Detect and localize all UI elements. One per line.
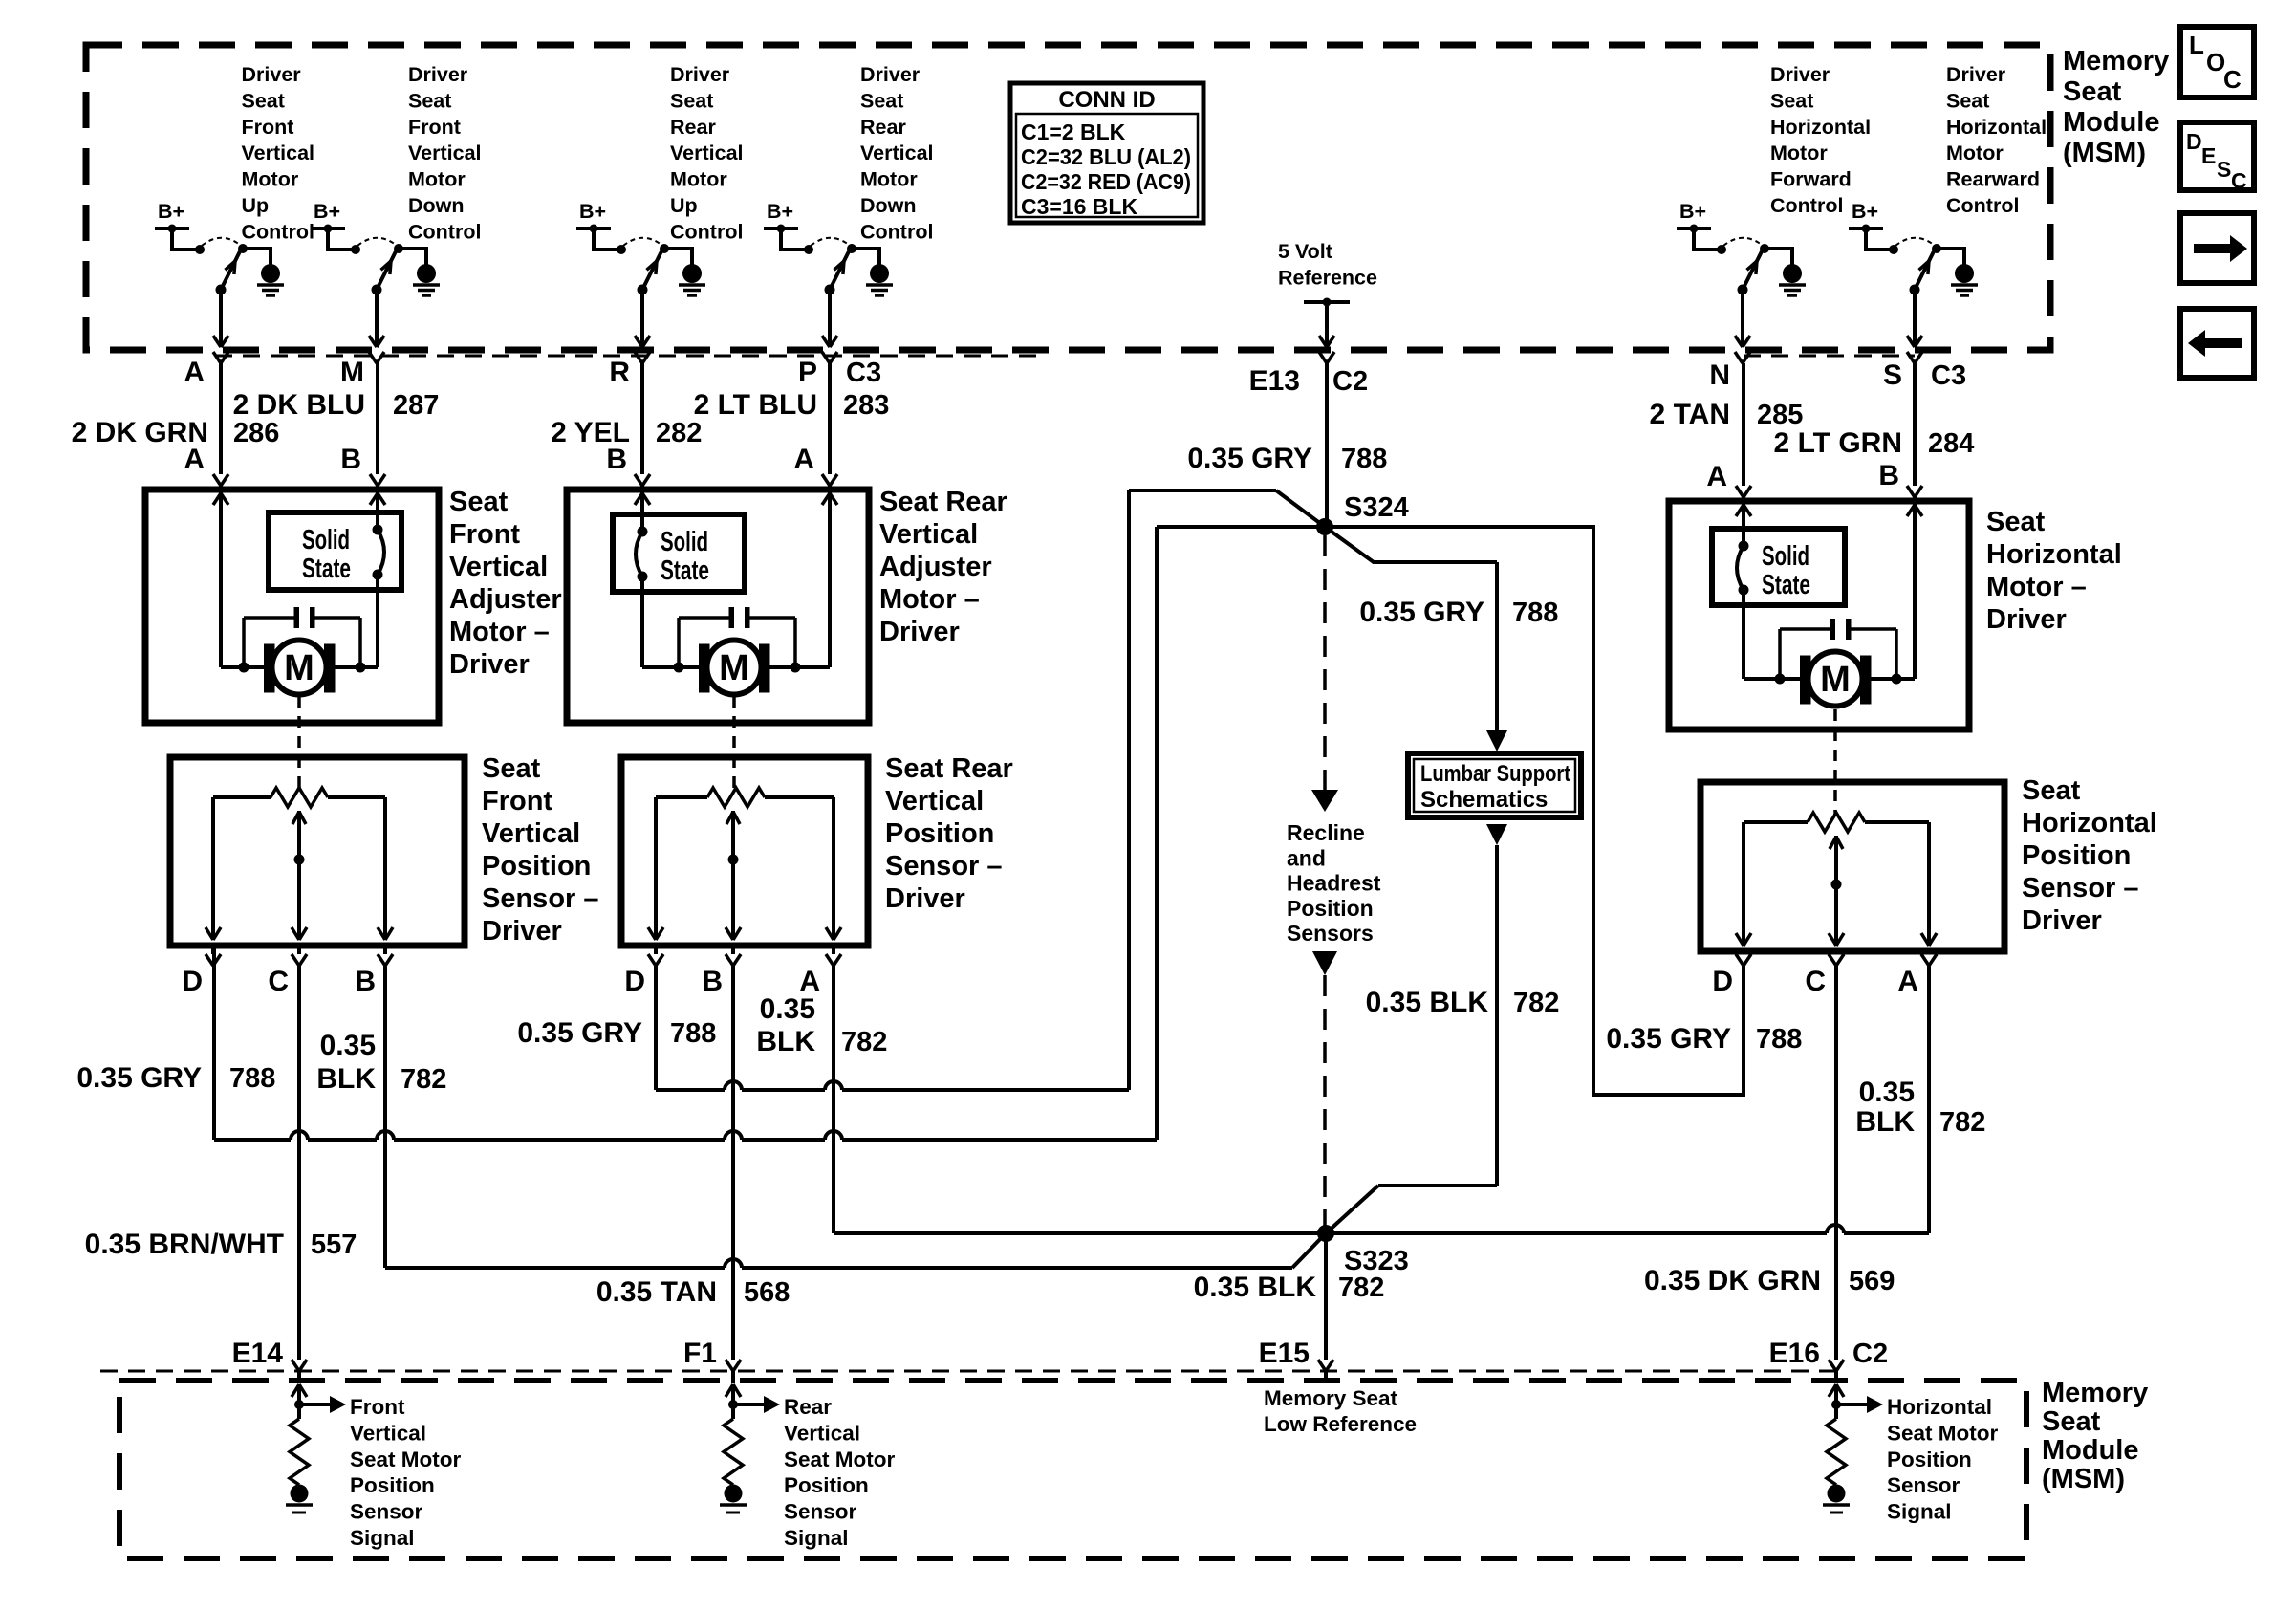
svg-text:282: 282 bbox=[656, 418, 702, 448]
pin label A (motor box 1 left) bbox=[184, 444, 205, 475]
svg-text:Driver: Driver bbox=[1946, 63, 2006, 86]
svg-text:M: M bbox=[1820, 660, 1851, 700]
svg-text:Vertical: Vertical bbox=[350, 1421, 426, 1445]
wire 0.35 BLK 782 from Lumbar Support down to S323 bbox=[1326, 824, 1507, 1233]
svg-text:569: 569 bbox=[1849, 1266, 1895, 1296]
svg-text:State: State bbox=[302, 554, 351, 584]
svg-text:Motor: Motor bbox=[1946, 142, 2004, 164]
svg-text:BLK: BLK bbox=[1855, 1106, 1915, 1138]
sensor2 pin letters D B A bbox=[624, 966, 820, 997]
svg-text:Seat: Seat bbox=[1770, 89, 1813, 112]
svg-text:Module: Module bbox=[2063, 107, 2160, 138]
sensor3 pin D fork bbox=[1736, 951, 1751, 966]
dashed wire 0.35 GRY 788 to Recline and Headrest Position Sensors bbox=[1311, 535, 1338, 812]
svg-text:C2: C2 bbox=[1852, 1339, 1888, 1369]
svg-text:Module: Module bbox=[2042, 1435, 2139, 1466]
svg-text:M: M bbox=[340, 357, 364, 388]
svg-text:Driver: Driver bbox=[1770, 63, 1830, 86]
svg-text:Front: Front bbox=[242, 116, 294, 139]
svg-text:Up: Up bbox=[670, 194, 698, 217]
svg-text:B: B bbox=[1878, 460, 1899, 491]
svg-text:Seat Motor: Seat Motor bbox=[350, 1448, 462, 1471]
svg-text:0.35 GRY: 0.35 GRY bbox=[76, 1062, 202, 1094]
svg-text:Rear: Rear bbox=[670, 116, 716, 139]
connector fork pin R (rear vertical up) bbox=[635, 352, 650, 363]
svg-text:788: 788 bbox=[670, 1018, 716, 1049]
svg-text:B+: B+ bbox=[1852, 200, 1878, 223]
sensor1 pin C fork bbox=[292, 946, 307, 966]
mechanical link motor 1 to sensor 1 (dashed) bbox=[297, 696, 301, 788]
wire label 0.35 BLK 782 (E15 low reference) bbox=[1194, 1272, 1385, 1303]
svg-text:0.35 BRN/WHT: 0.35 BRN/WHT bbox=[85, 1229, 284, 1260]
svg-text:Position: Position bbox=[1287, 896, 1374, 921]
svg-text:A: A bbox=[1706, 461, 1727, 492]
svg-text:B+: B+ bbox=[767, 200, 793, 223]
svg-text:S: S bbox=[1883, 359, 1902, 391]
svg-text:S324: S324 bbox=[1344, 492, 1409, 523]
BLK 782 S323 bus horizontal (sensor2 A to sensor3 A) bbox=[834, 966, 1929, 1233]
wire 2 DK GRN 286 segment (A to motor box 1) bbox=[213, 363, 228, 490]
wire 0.35 BRN/WHT 557 (sensor1 C signal to E14) bbox=[297, 966, 301, 1360]
svg-text:Position: Position bbox=[350, 1473, 435, 1497]
svg-text:M: M bbox=[719, 648, 749, 688]
svg-text:Position: Position bbox=[1887, 1448, 1972, 1471]
svg-text:Seat: Seat bbox=[2042, 1406, 2101, 1437]
svg-text:Driver: Driver bbox=[860, 63, 921, 86]
wire label 0.35 BRN/WHT 557 bbox=[85, 1229, 357, 1260]
wire 0.35 DK GRN 569 (sensor3 C signal to E16) bbox=[1834, 966, 1838, 1360]
svg-text:E: E bbox=[2201, 143, 2216, 168]
svg-text:Motor: Motor bbox=[670, 168, 727, 191]
LOC icon box bbox=[2180, 27, 2254, 98]
svg-text:D: D bbox=[624, 966, 645, 997]
pin label E14 bbox=[232, 1338, 284, 1369]
svg-text:Down: Down bbox=[860, 194, 917, 217]
sensor3 pin C fork bbox=[1829, 951, 1844, 966]
svg-text:BLK: BLK bbox=[756, 1026, 815, 1057]
pin label R bbox=[609, 357, 630, 388]
svg-text:Motor: Motor bbox=[860, 168, 918, 191]
svg-text:Seat Motor: Seat Motor bbox=[784, 1448, 896, 1471]
svg-text:B: B bbox=[606, 444, 627, 475]
Seat Rear Vertical Position Sensor - Driver (potentiometer) bbox=[621, 753, 1013, 946]
connector fork pin S (horizontal rearward) bbox=[1907, 352, 1922, 363]
svg-text:Front: Front bbox=[408, 116, 461, 139]
wire 2 LT BLU 283 segment (P to motor box 2) bbox=[822, 363, 837, 490]
pin label S bbox=[1883, 359, 1902, 391]
svg-text:C: C bbox=[2231, 168, 2247, 193]
DESC icon box bbox=[2180, 122, 2254, 193]
switch: Driver Seat Horizontal Motor Forward Control (inside MSM) bbox=[1677, 63, 1871, 347]
Memory Seat Module (MSM) bottom dashed boundary box bbox=[119, 1381, 2026, 1558]
connector fork pin N (horizontal forward) bbox=[1735, 352, 1750, 363]
svg-text:287: 287 bbox=[393, 390, 439, 421]
svg-text:Down: Down bbox=[408, 194, 465, 217]
svg-text:C2: C2 bbox=[1332, 366, 1368, 397]
svg-text:782: 782 bbox=[1939, 1107, 1985, 1138]
wire label 0.35 GRY 788 (sensor3 D) bbox=[1606, 1023, 1802, 1055]
svg-text:Sensor –: Sensor – bbox=[885, 851, 1003, 882]
svg-text:782: 782 bbox=[1338, 1273, 1384, 1303]
svg-text:788: 788 bbox=[1341, 444, 1387, 474]
svg-text:Driver: Driver bbox=[482, 916, 562, 947]
svg-text:Seat: Seat bbox=[482, 753, 541, 784]
svg-text:Vertical: Vertical bbox=[242, 142, 315, 164]
svg-text:A: A bbox=[184, 444, 205, 475]
svg-text:E15: E15 bbox=[1259, 1338, 1310, 1369]
svg-text:Seat: Seat bbox=[449, 487, 509, 517]
connector fork pin P (rear vertical down) bbox=[822, 352, 837, 363]
wire label 0.35 BLK 782 (lumbar return) bbox=[1366, 987, 1560, 1018]
pin label P bbox=[798, 357, 817, 388]
Memory Seat Module (MSM) top dashed boundary box bbox=[86, 45, 2050, 350]
wire label 2 TAN 285 (wire N) bbox=[1650, 399, 1804, 430]
svg-text:Vertical: Vertical bbox=[482, 818, 580, 849]
svg-text:Up: Up bbox=[242, 194, 270, 217]
Front Vertical Seat Motor Position Sensor Signal (resistor to ground) bbox=[286, 1384, 462, 1550]
svg-text:R: R bbox=[609, 357, 630, 388]
pin label A bbox=[184, 357, 205, 388]
svg-text:Motor: Motor bbox=[408, 168, 466, 191]
svg-text:2 TAN: 2 TAN bbox=[1650, 399, 1730, 430]
svg-text:Vertical: Vertical bbox=[449, 552, 548, 582]
svg-text:A: A bbox=[184, 357, 205, 388]
thin dashed connector line (right group C3) bbox=[1744, 355, 1915, 358]
Seat Rear Vertical Adjuster Motor - Driver (U2) bbox=[567, 487, 1007, 723]
svg-text:C2=32 BLU (AL2): C2=32 BLU (AL2) bbox=[1021, 144, 1191, 169]
switch: Driver Seat Front Vertical Motor Down Control (inside MSM) bbox=[311, 63, 482, 347]
Seat Front Vertical Adjuster Motor - Driver (U1) bbox=[145, 487, 562, 723]
pin label E15 bbox=[1259, 1338, 1310, 1369]
pin label A (motor box 2 right) bbox=[793, 444, 814, 475]
svg-text:D: D bbox=[2186, 129, 2202, 154]
svg-text:Low Reference: Low Reference bbox=[1264, 1412, 1417, 1436]
svg-text:C: C bbox=[2223, 65, 2242, 94]
Recline and Headrest Position Sensors reference text bbox=[1287, 820, 1381, 946]
svg-text:C2=32 RED (AC9): C2=32 RED (AC9) bbox=[1021, 169, 1191, 194]
svg-text:Seat Rear: Seat Rear bbox=[879, 487, 1007, 517]
Horizontal Seat Motor Position Sensor Signal (resistor to ground) bbox=[1823, 1384, 1999, 1524]
svg-text:Control: Control bbox=[860, 220, 933, 243]
wire 2 DK BLU 287 segment (M to motor box 1) bbox=[370, 363, 385, 490]
svg-text:2 LT GRN: 2 LT GRN bbox=[1774, 427, 1902, 459]
pin label E16 bbox=[1769, 1338, 1820, 1369]
svg-text:Vertical: Vertical bbox=[879, 519, 978, 550]
splice S323 node bbox=[1317, 1225, 1409, 1276]
svg-text:Seat Motor: Seat Motor bbox=[1887, 1421, 1999, 1445]
svg-text:788: 788 bbox=[1756, 1024, 1802, 1055]
svg-text:State: State bbox=[1762, 570, 1810, 600]
sensor2 pin B fork bbox=[726, 946, 741, 966]
svg-text:Horizontal: Horizontal bbox=[1986, 539, 2122, 570]
mechanical link motor 2 to sensor 2 (dashed) bbox=[732, 696, 736, 788]
svg-text:Rear: Rear bbox=[784, 1395, 832, 1419]
svg-text:A: A bbox=[1897, 966, 1918, 997]
svg-text:Schematics: Schematics bbox=[1420, 787, 1548, 813]
svg-text:C1=2 BLK: C1=2 BLK bbox=[1021, 120, 1126, 144]
svg-text:E14: E14 bbox=[232, 1338, 284, 1369]
svg-text:Sensor: Sensor bbox=[784, 1500, 857, 1524]
svg-text:Forward: Forward bbox=[1770, 168, 1852, 191]
connector fork pin A (front vertical up) bbox=[213, 352, 228, 363]
wire 0.35 GRY 788 segment (E13 down to S324) bbox=[1325, 363, 1329, 527]
Seat Horizontal Position Sensor - Driver (potentiometer) bbox=[1700, 775, 2157, 951]
svg-text:788: 788 bbox=[1512, 598, 1558, 628]
svg-text:Vertical: Vertical bbox=[408, 142, 482, 164]
svg-text:Adjuster: Adjuster bbox=[449, 584, 562, 615]
wire label 2 LT GRN 284 (wire S) bbox=[1774, 427, 1975, 459]
svg-text:0.35: 0.35 bbox=[1859, 1077, 1915, 1108]
Rear Vertical Seat Motor Position Sensor Signal (resistor to ground) bbox=[720, 1384, 896, 1550]
svg-text:Vertical: Vertical bbox=[885, 786, 984, 816]
svg-text:782: 782 bbox=[1513, 988, 1559, 1018]
svg-text:C: C bbox=[268, 966, 289, 997]
wire label 2 DK GRN 286 (wire A) bbox=[72, 417, 280, 448]
svg-text:Front: Front bbox=[350, 1395, 405, 1419]
connector fork E16 bbox=[1829, 1360, 1844, 1383]
svg-text:Solid: Solid bbox=[1762, 541, 1809, 572]
splice S324 node bbox=[1316, 492, 1409, 535]
svg-text:D: D bbox=[1712, 966, 1733, 997]
svg-text:F1: F1 bbox=[683, 1338, 717, 1369]
svg-text:(MSM): (MSM) bbox=[2063, 138, 2146, 168]
wire label 2 DK BLU 287 (wire M) bbox=[233, 389, 440, 421]
wire 0.35 BLK 782 bus2 (sensor1 B to S323) bbox=[385, 966, 1326, 1268]
svg-text:568: 568 bbox=[744, 1277, 790, 1308]
svg-text:0.35 BLK: 0.35 BLK bbox=[1194, 1272, 1317, 1303]
svg-text:0.35: 0.35 bbox=[760, 993, 815, 1025]
pin label C2 (E13) bbox=[1332, 366, 1368, 397]
backward arrow icon box bbox=[2180, 309, 2254, 378]
svg-text:Position: Position bbox=[784, 1473, 869, 1497]
svg-text:B: B bbox=[702, 966, 723, 997]
S324 right branch to sensor3 D bbox=[1325, 527, 1744, 1095]
wire label 0.35 TAN 568 bbox=[596, 1276, 791, 1308]
svg-text:Seat: Seat bbox=[670, 89, 713, 112]
svg-text:Horizontal: Horizontal bbox=[1946, 116, 2047, 139]
svg-text:Position: Position bbox=[885, 818, 994, 849]
svg-text:B+: B+ bbox=[579, 200, 606, 223]
svg-text:CONN ID: CONN ID bbox=[1058, 87, 1155, 113]
svg-text:5 Volt: 5 Volt bbox=[1278, 240, 1332, 263]
connector fork E14 bbox=[292, 1360, 307, 1383]
svg-text:0.35 DK GRN: 0.35 DK GRN bbox=[1644, 1265, 1821, 1296]
svg-text:Rear: Rear bbox=[860, 116, 906, 139]
dashed wire 0.35 BLK 782 from Recline/Headrest sensors to S323 bbox=[1312, 951, 1337, 1233]
svg-text:Front: Front bbox=[482, 786, 552, 816]
svg-text:0.35 BLK: 0.35 BLK bbox=[1366, 987, 1489, 1018]
switch: Driver Seat Horizontal Motor Rearward Control (inside MSM) bbox=[1849, 63, 2047, 347]
wire label 2 YEL 282 (wire R) bbox=[551, 417, 702, 448]
svg-text:Adjuster: Adjuster bbox=[879, 552, 992, 582]
svg-text:Driver: Driver bbox=[242, 63, 302, 86]
connector fork F1 bbox=[726, 1360, 741, 1383]
svg-text:L: L bbox=[2189, 31, 2204, 59]
svg-text:Vertical: Vertical bbox=[670, 142, 744, 164]
svg-text:Motor: Motor bbox=[242, 168, 299, 191]
svg-text:and: and bbox=[1287, 845, 1326, 870]
thin dashed connector line (bottom, C2) bbox=[100, 1370, 1837, 1373]
svg-text:Driver: Driver bbox=[449, 649, 530, 680]
svg-text:2 LT BLU: 2 LT BLU bbox=[694, 389, 817, 421]
svg-text:285: 285 bbox=[1757, 400, 1803, 430]
pin label N bbox=[1709, 359, 1730, 391]
svg-text:Sensor: Sensor bbox=[1887, 1473, 1960, 1497]
Memory Seat Low Reference text (E15) bbox=[1264, 1386, 1417, 1436]
svg-text:Control: Control bbox=[670, 220, 743, 243]
pin label C2 (E16) bbox=[1852, 1339, 1888, 1369]
svg-text:Recline: Recline bbox=[1287, 820, 1365, 845]
svg-text:Seat: Seat bbox=[2022, 775, 2081, 806]
svg-text:C3: C3 bbox=[1931, 360, 1966, 391]
svg-text:Driver: Driver bbox=[879, 617, 960, 647]
svg-text:Sensor –: Sensor – bbox=[2022, 873, 2139, 903]
svg-text:Motor –: Motor – bbox=[1986, 572, 2087, 602]
svg-text:(MSM): (MSM) bbox=[2042, 1464, 2125, 1494]
pin label B (motor box 1 right) bbox=[340, 444, 361, 475]
svg-text:0.35 GRY: 0.35 GRY bbox=[1359, 597, 1484, 628]
svg-text:State: State bbox=[661, 555, 709, 586]
svg-text:0.35 GRY: 0.35 GRY bbox=[517, 1017, 642, 1049]
switch: Driver Seat Front Vertical Motor Up Control (inside MSM) bbox=[155, 63, 314, 347]
pin label B (motor box 3 right) bbox=[1878, 460, 1899, 491]
svg-text:Memory: Memory bbox=[2063, 46, 2169, 76]
svg-text:2 DK BLU: 2 DK BLU bbox=[233, 389, 365, 421]
svg-text:Vertical: Vertical bbox=[860, 142, 934, 164]
svg-text:Horizontal: Horizontal bbox=[2022, 808, 2157, 838]
pin label M bbox=[340, 357, 364, 388]
svg-text:Driver: Driver bbox=[2022, 905, 2102, 936]
sensor2 pin A fork bbox=[826, 946, 841, 966]
wire 0.35 GRY 788 bus upper-left branch (to sensor2 D via riser x=1181) bbox=[656, 490, 1325, 1090]
svg-text:0.35: 0.35 bbox=[320, 1030, 376, 1061]
svg-text:B: B bbox=[355, 966, 376, 997]
svg-text:283: 283 bbox=[843, 390, 889, 421]
svg-text:0.35 GRY: 0.35 GRY bbox=[1187, 443, 1312, 474]
svg-text:Seat: Seat bbox=[860, 89, 903, 112]
pin label B (motor box 2 left) bbox=[606, 444, 627, 475]
svg-text:S: S bbox=[2217, 157, 2231, 182]
svg-text:Control: Control bbox=[408, 220, 481, 243]
svg-text:Position: Position bbox=[482, 851, 591, 882]
wire label 0.35 BLK 782 (sensor3 A) bbox=[1855, 1077, 1985, 1138]
svg-text:B+: B+ bbox=[314, 200, 340, 223]
Seat Front Vertical Position Sensor - Driver (potentiometer) bbox=[170, 753, 599, 947]
svg-text:A: A bbox=[793, 444, 814, 475]
GRY 788 bus1 horizontal (sensor1 D to S324 riser) bbox=[214, 946, 1157, 1140]
svg-text:286: 286 bbox=[233, 418, 279, 448]
svg-text:D: D bbox=[182, 966, 203, 997]
svg-text:284: 284 bbox=[1928, 428, 1974, 459]
svg-text:Seat: Seat bbox=[242, 89, 285, 112]
svg-text:Memory Seat: Memory Seat bbox=[1264, 1386, 1398, 1410]
5 Volt Reference terminal (node E13 source) bbox=[1278, 240, 1377, 347]
svg-text:Seat: Seat bbox=[408, 89, 451, 112]
svg-text:Control: Control bbox=[1770, 194, 1843, 217]
pin label A (motor box 3 left) bbox=[1706, 461, 1727, 492]
CONN ID table bbox=[1010, 83, 1203, 223]
wire label 0.35 GRY 788 (sensor2 D) bbox=[517, 1017, 716, 1049]
sensor3 pin A fork bbox=[1921, 951, 1937, 966]
S324 lower-right branch to Lumbar Support (0.35 GRY 788) bbox=[1325, 527, 1507, 751]
wire label 0.35 BLK 782 (sensor2 A) bbox=[756, 993, 887, 1057]
svg-text:Headrest: Headrest bbox=[1287, 871, 1381, 896]
Memory Seat Module (MSM) title bottom right bbox=[2042, 1378, 2148, 1494]
svg-text:Motor: Motor bbox=[1770, 142, 1828, 164]
svg-text:Memory: Memory bbox=[2042, 1378, 2148, 1408]
wire label 0.35 GRY 788 (E13 5V ref) bbox=[1187, 443, 1387, 474]
svg-text:Horizontal: Horizontal bbox=[1770, 116, 1871, 139]
svg-text:M: M bbox=[284, 648, 314, 688]
switch: Driver Seat Rear Vertical Motor Down Control (inside MSM) bbox=[764, 63, 934, 347]
svg-text:E16: E16 bbox=[1769, 1338, 1820, 1369]
sensor1 pin D fork bbox=[206, 946, 221, 966]
svg-text:Driver: Driver bbox=[408, 63, 468, 86]
svg-text:C3: C3 bbox=[846, 358, 881, 388]
connector fork pin M (front vertical down) bbox=[369, 352, 384, 363]
svg-text:0.35 GRY: 0.35 GRY bbox=[1606, 1023, 1731, 1055]
svg-text:Front: Front bbox=[449, 519, 520, 550]
svg-text:Seat: Seat bbox=[1946, 89, 1989, 112]
pin label C3 (horizontal group) bbox=[1931, 360, 1966, 391]
S324 left branch to GRY 788 bus1 (sensor1 D) bbox=[1157, 527, 1325, 1140]
svg-text:Lumbar Support: Lumbar Support bbox=[1420, 761, 1570, 787]
svg-text:BLK: BLK bbox=[316, 1063, 376, 1095]
svg-text:Signal: Signal bbox=[1887, 1500, 1952, 1524]
svg-text:Rearward: Rearward bbox=[1946, 168, 2040, 191]
svg-text:N: N bbox=[1709, 359, 1730, 391]
svg-text:B+: B+ bbox=[158, 200, 184, 223]
pin label F1 bbox=[683, 1338, 717, 1369]
wire label 0.35 BLK 782 (sensor1 B) bbox=[316, 1030, 446, 1095]
svg-text:Sensors: Sensors bbox=[1287, 921, 1374, 946]
svg-text:Horizontal: Horizontal bbox=[1887, 1395, 1992, 1419]
svg-text:Seat: Seat bbox=[1986, 507, 2046, 537]
svg-text:Control: Control bbox=[1946, 194, 2019, 217]
svg-text:Driver: Driver bbox=[885, 883, 965, 914]
pin label E13 bbox=[1249, 365, 1300, 397]
wire label 2 LT BLU 283 (wire P) bbox=[694, 389, 890, 421]
svg-text:782: 782 bbox=[401, 1064, 446, 1095]
svg-text:0.35 TAN: 0.35 TAN bbox=[596, 1276, 717, 1308]
sensor2 pin D fork bbox=[648, 946, 663, 966]
wire 2 LT GRN 284 segment (S to motor box 3) bbox=[1907, 363, 1922, 501]
wire 0.35 BLK 782 (S323 down to E15) bbox=[1324, 1233, 1328, 1360]
thin dashed connector line (left group C3/C2) bbox=[215, 355, 1044, 358]
sensor1 pin letters D C B bbox=[182, 966, 376, 997]
wire 2 TAN 285 segment (N to motor box 3) bbox=[1736, 363, 1751, 501]
Lumbar Support Schematics reference box bbox=[1408, 753, 1581, 817]
wire 0.35 BLK 782 (sensor2 A down to S323 bus) bbox=[832, 966, 835, 1233]
svg-text:Driver: Driver bbox=[670, 63, 730, 86]
wire label 0.35 GRY 788 (lumbar feed) bbox=[1359, 597, 1558, 628]
svg-text:782: 782 bbox=[841, 1027, 887, 1057]
svg-text:B+: B+ bbox=[1679, 200, 1706, 223]
svg-text:Position: Position bbox=[2022, 840, 2131, 871]
connector fork E15 bbox=[1318, 1360, 1333, 1383]
wire 0.35 TAN 568 (sensor2 B signal to F1) bbox=[731, 966, 735, 1360]
svg-text:C3=16 BLK: C3=16 BLK bbox=[1021, 194, 1137, 219]
switch: Driver Seat Rear Vertical Motor Up Control (inside MSM) bbox=[576, 63, 744, 347]
wire label 0.35 DK GRN 569 bbox=[1644, 1265, 1895, 1296]
svg-text:Reference: Reference bbox=[1278, 266, 1377, 289]
svg-text:Driver: Driver bbox=[1986, 604, 2067, 635]
svg-text:Motor –: Motor – bbox=[879, 584, 980, 615]
svg-text:Sensor –: Sensor – bbox=[482, 883, 599, 914]
svg-text:Seat: Seat bbox=[2063, 76, 2122, 107]
Seat Horizontal Motor - Driver (U3) bbox=[1669, 501, 2122, 729]
svg-text:E13: E13 bbox=[1249, 365, 1300, 397]
